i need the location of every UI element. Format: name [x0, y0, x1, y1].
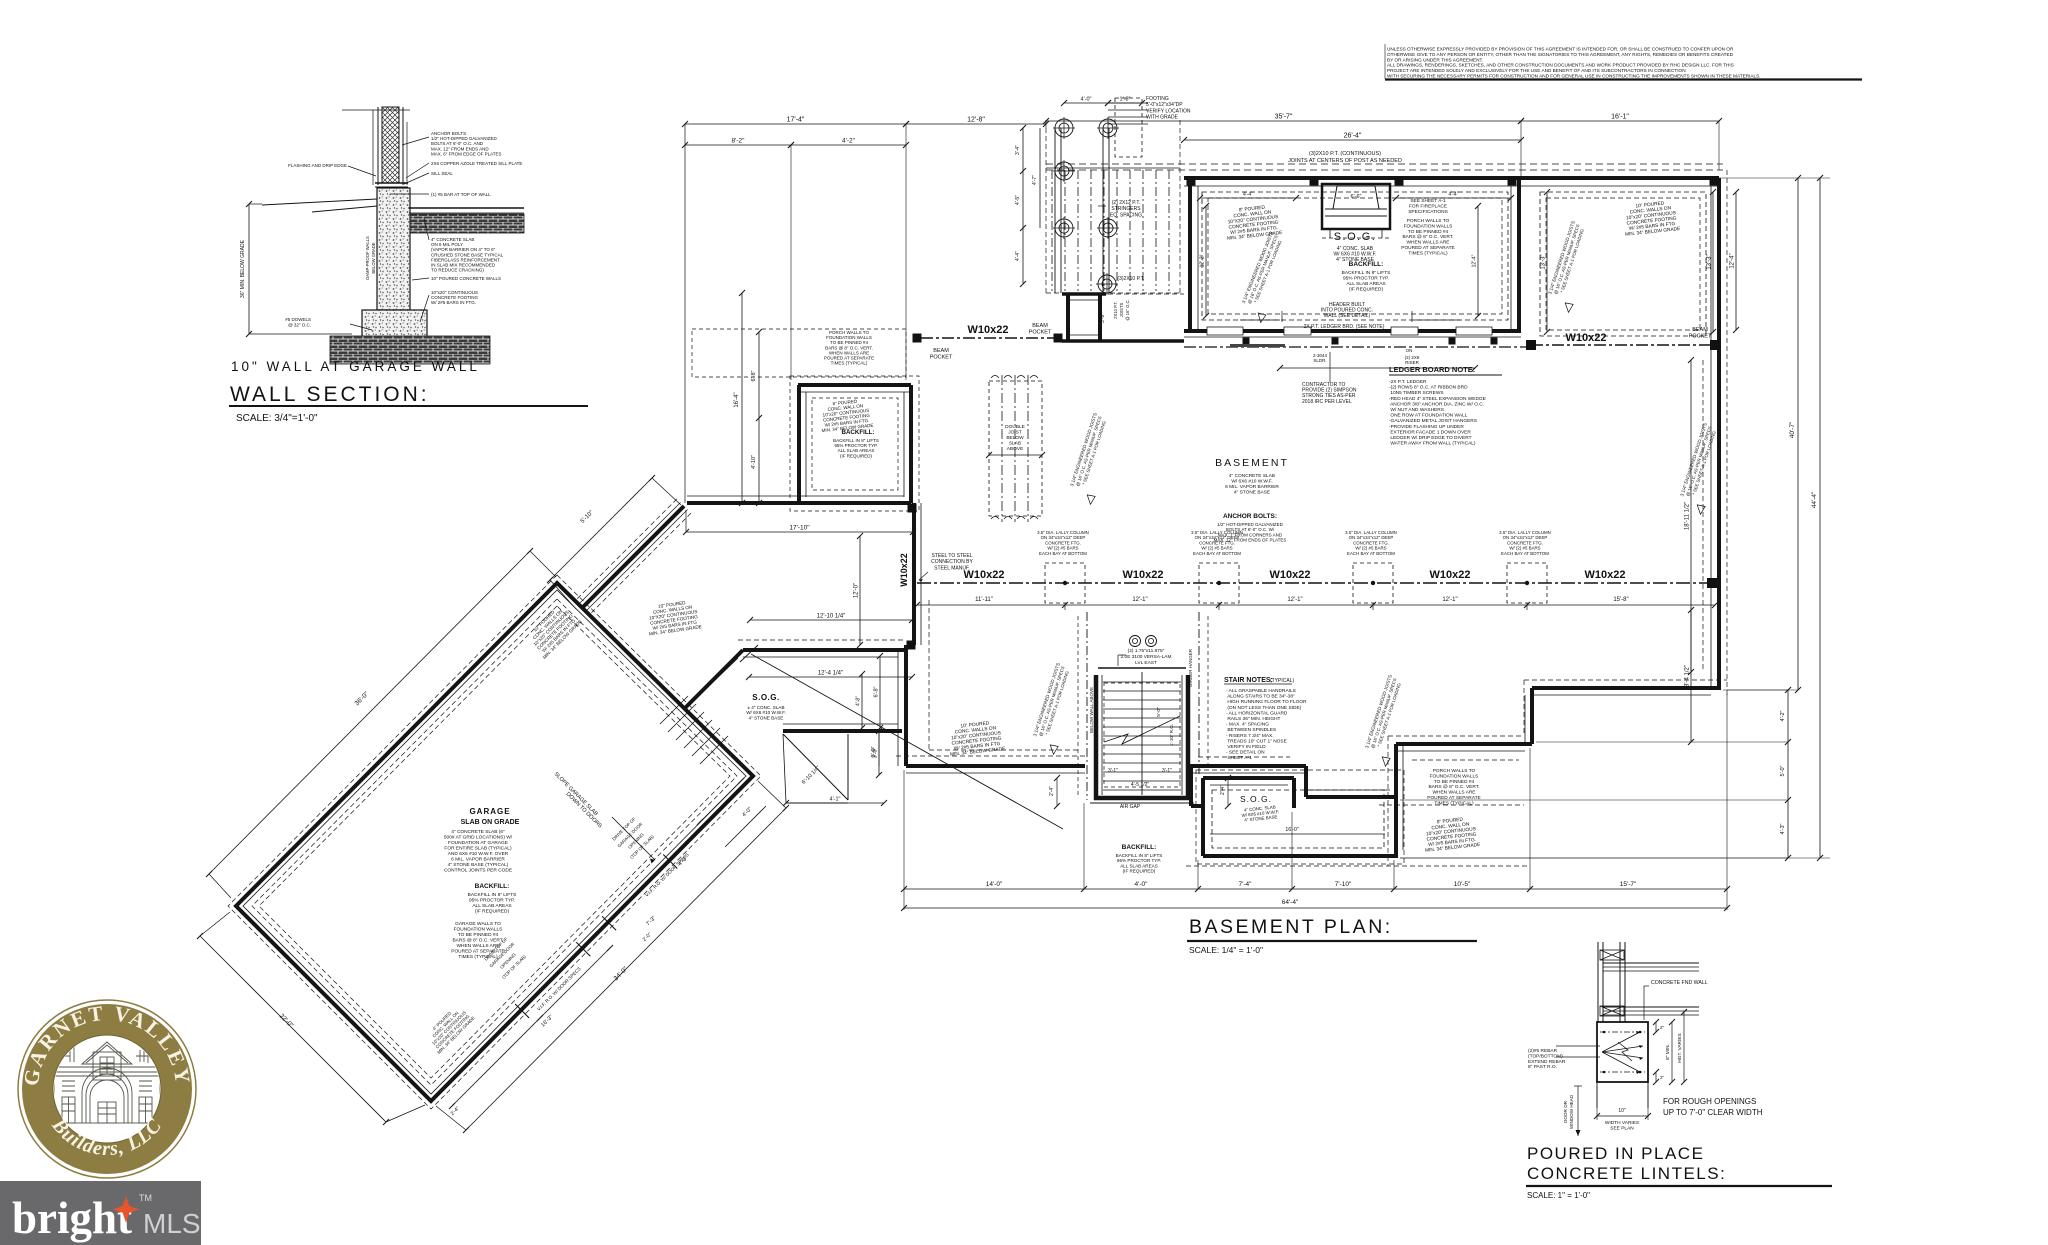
svg-text:BELOW GRADE: BELOW GRADE: [371, 242, 376, 273]
svg-text:15'-7": 15'-7": [1620, 881, 1637, 888]
stairs long diagonal line: [740, 645, 1063, 829]
svg-text:3'-1": 3'-1": [1108, 768, 1118, 774]
svg-text:26'-4": 26'-4": [1344, 133, 1362, 140]
svg-text:4'-2": 4'-2": [842, 138, 856, 145]
svg-text:4'-4": 4'-4": [1243, 192, 1253, 198]
double joist dashed box: [986, 375, 1045, 522]
porch SOG bump walls: [1196, 770, 1404, 864]
svg-text:64'-4": 64'-4": [1282, 899, 1299, 906]
deck dimension 4-0: [1061, 96, 1191, 121]
deck annotations: [1098, 200, 1145, 321]
svg-text:SILL SEAL: SILL SEAL: [431, 171, 453, 176]
sog landing label: [746, 693, 786, 720]
bottom notch left of porch: [1191, 766, 1203, 806]
main beam W10x22 line: [899, 553, 1717, 588]
mudroom steps lines: [660, 696, 728, 764]
porch ledger dashed lines above top wall: [1046, 164, 1723, 170]
svg-text:17'-10": 17'-10": [789, 525, 810, 532]
svg-text:12'-2": 12'-2": [1200, 254, 1206, 267]
svg-text:2": 2": [1660, 1075, 1665, 1080]
svg-text:WALL SECTION:: WALL SECTION:: [230, 383, 430, 406]
left wall upper segment: [907, 503, 922, 650]
svg-text:6'-8": 6'-8": [751, 370, 757, 381]
svg-text:BACKFILL IN 8" LIFTS95% PROCTO: BACKFILL IN 8" LIFTS95% PROCTOR TYP.ALL …: [1116, 853, 1163, 874]
svg-text:3'-0": 3'-0": [871, 746, 877, 757]
top dimension 35-7: [1043, 114, 1524, 179]
svg-text:4" CONCRETE SLAB (6"500# AT GR: 4" CONCRETE SLAB (6"500# AT GRID LOCATIO…: [444, 829, 513, 874]
svg-text:16'-1": 16'-1": [1611, 114, 1629, 121]
svg-text:8'-4 1/2": 8'-4 1/2": [1685, 665, 1691, 687]
svg-text:7'-4": 7'-4": [1239, 881, 1253, 888]
lintel box: [1597, 1022, 1648, 1082]
deck footing posts circles: [1053, 117, 1119, 295]
svg-text:ALL DRAWINGS, RENDERINGS, SKET: ALL DRAWINGS, RENDERINGS, SKETCHES, AND …: [1387, 63, 1734, 68]
right step dimensions: [1400, 687, 1791, 861]
svg-text:GARAGE WALLS TOFOUNDATION WALL: GARAGE WALLS TOFOUNDATION WALLSTO BE PIN…: [451, 921, 505, 960]
svg-text:4'-8": 4'-8": [856, 696, 862, 706]
svg-text:MLS: MLS: [143, 1208, 201, 1239]
svg-text:4'-5 1/2": 4'-5 1/2": [1131, 782, 1150, 788]
svg-text:2X P.T. LEDGER BRD. (SEE NOTE): 2X P.T. LEDGER BRD. (SEE NOTE): [1304, 324, 1385, 330]
svg-text:BACKFILL:: BACKFILL:: [1349, 261, 1384, 268]
svg-text:14'-0": 14'-0": [986, 881, 1003, 888]
engineered wood joists note (rotated): [1676, 421, 1730, 515]
contractor simpson note: [1302, 352, 1357, 405]
garnet valley builders logo: [18, 1000, 196, 1178]
garage door openings: [515, 855, 677, 1019]
lintel width dims: [1594, 1086, 1651, 1131]
svg-text:7'-10": 7'-10": [1335, 881, 1352, 888]
top-right room bottom wall with openings: [1184, 327, 1521, 345]
svg-text:12'-8": 12'-8": [967, 117, 985, 124]
svg-text:HGT. VARIES: HGT. VARIES: [1677, 1033, 1683, 1063]
svg-text:STEEL TO STEELCONNECTION BYSTE: STEEL TO STEELCONNECTION BYSTEEL MANUF.: [931, 553, 973, 571]
top-right room inner dashed footing: [1202, 192, 1508, 320]
svg-text:12'-1": 12'-1": [1442, 597, 1457, 603]
svg-text:BACKFILL:: BACKFILL:: [1122, 844, 1157, 851]
svg-text:PORCH WALLS TOFOUNDATION WALLS: PORCH WALLS TOFOUNDATION WALLSTO BE PINN…: [824, 330, 874, 366]
svg-text:S.O.G.: S.O.G.: [1240, 794, 1272, 804]
sog bottom wall: [783, 724, 902, 731]
wall section annotation leaders: [348, 137, 429, 330]
svg-text:@ 16" O.C.: @ 16" O.C.: [1125, 299, 1130, 320]
svg-text:8'-2": 8'-2": [732, 138, 746, 145]
svg-text:15'-8": 15'-8": [1613, 597, 1628, 603]
svg-text:OTHERWISE GIVE TO ANY PERSON O: OTHERWISE GIVE TO ANY PERSON OR ENTITY, …: [1387, 52, 1734, 57]
svg-text:13'-3": 13'-3": [1707, 254, 1713, 269]
lintel detail wall studs: [1598, 942, 1625, 1022]
bright MLS logo box: [0, 1181, 201, 1245]
lower-right step walls: [1186, 680, 1727, 866]
svg-text:BACKFILL:: BACKFILL:: [842, 429, 875, 436]
svg-text:ON: ON: [1406, 348, 1413, 353]
top dimension 16-1: [1518, 114, 1722, 171]
lintel door window head arrow: [1563, 1086, 1582, 1136]
svg-text:S.O.G.: S.O.G.: [752, 693, 779, 702]
svg-text:2'-4": 2'-4": [1049, 786, 1055, 796]
right porch inner dashed footing: [1540, 192, 1706, 336]
lintel rebar note: [1528, 1046, 1600, 1070]
svg-text:2": 2": [1660, 1025, 1665, 1030]
bottom left poured wall note: [947, 719, 1006, 758]
left wall lower segment: [898, 645, 906, 766]
lally columns on beam: [1045, 563, 1547, 610]
svg-text:STAIR NOTES:: STAIR NOTES:: [1224, 677, 1273, 684]
disclaimer text block: [1385, 44, 1862, 80]
svg-text:PROJECT ARE INTENDED SOLELY AN: PROJECT ARE INTENDED SOLELY AND EXCLUSIV…: [1387, 68, 1686, 73]
sog steps triangle: [783, 734, 848, 803]
svg-text:UP TO 7'-0" CLEAR WIDTH: UP TO 7'-0" CLEAR WIDTH: [1663, 1108, 1763, 1117]
svg-text:BACKFILL IN 8" LIFTS95% PROCTO: BACKFILL IN 8" LIFTS95% PROCTOR TYP.ALL …: [468, 892, 517, 915]
mudroom dimension 5-10: [547, 475, 681, 609]
svg-text:5'-0": 5'-0": [1780, 765, 1786, 776]
svg-text:10"x20" CONTINUOUSCONCRETE FOO: 10"x20" CONTINUOUSCONCRETE FOOTINGW/ 2#5…: [431, 290, 478, 305]
svg-text:DAMP-PROOF WALLS: DAMP-PROOF WALLS: [365, 236, 370, 280]
svg-text:10" POURED CONCRETE WALLS: 10" POURED CONCRETE WALLS: [431, 276, 501, 281]
svg-text:12'-4": 12'-4": [1472, 254, 1478, 267]
svg-text:GIRDER HANGER: GIRDER HANGER: [1188, 648, 1193, 687]
svg-text:W10x22: W10x22: [1430, 569, 1471, 581]
garage dimension 34-0 and sub dims: [436, 781, 789, 1133]
svg-text:(2) 2X12 P.T.STRINGERSEQ. SPAC: (2) 2X12 P.T.STRINGERSEQ. SPACING: [1110, 200, 1142, 218]
svg-text:BACKFILL IN 8" LIFTS95% PROCTO: BACKFILL IN 8" LIFTS95% PROCTOR TYP.ALL …: [1342, 270, 1391, 293]
svg-text:4'-4": 4'-4": [1015, 251, 1021, 261]
garage dimension 22-0: [197, 912, 425, 1125]
svg-text:SEE SHEET A-1FOR FIREPLACESPEC: SEE SHEET A-1FOR FIREPLACESPECIFICATIONS: [1408, 198, 1448, 215]
svg-text:JOISTS: JOISTS: [1119, 302, 1124, 317]
svg-text:CONCRETE LINTELS:: CONCRETE LINTELS:: [1527, 1164, 1726, 1183]
svg-text:12'-1": 12'-1": [1132, 597, 1147, 603]
svg-text:12'-4 1/4": 12'-4 1/4": [818, 671, 843, 677]
svg-text:DOUBLEJOISTBELOWSLABABOVE: DOUBLEJOISTBELOWSLABABOVE: [1005, 424, 1025, 452]
svg-text:4'-3": 4'-3": [1780, 823, 1786, 834]
sog top wall: [738, 640, 906, 657]
svg-text:SCALE: 3/4"=1'-0": SCALE: 3/4"=1'-0": [236, 413, 318, 424]
steel to steel note: [919, 553, 973, 582]
svg-text:5'-0": 5'-0": [1156, 707, 1162, 717]
svg-text:W10x22: W10x22: [968, 324, 1009, 336]
left vertical dims backfill room: [734, 290, 762, 506]
sog left diagonal wall: [684, 650, 743, 709]
svg-text:4'-10": 4'-10": [751, 455, 757, 469]
svg-text:4'-5": 4'-5": [1015, 195, 1021, 205]
svg-text:12'-1": 12'-1": [1287, 597, 1302, 603]
svg-text:12'-0": 12'-0": [854, 583, 860, 598]
engineered wood joists note (rotated): [1361, 673, 1415, 767]
backfill note bottom center: [1116, 844, 1163, 874]
wall section left dimension 36in min below grade: [240, 201, 352, 337]
svg-text:PORCH WALLS TOFOUNDATION WALLS: PORCH WALLS TOFOUNDATION WALLSTO BE PINN…: [1427, 768, 1481, 806]
beam W10x22 top right: [1526, 327, 1720, 350]
svg-text:12'-10 1/4": 12'-10 1/4": [817, 614, 846, 620]
svg-text:AIR GAP: AIR GAP: [1120, 804, 1141, 810]
svg-text:2X6 COPPER AZOLE TREATED SILL: 2X6 COPPER AZOLE TREATED SILL PLATE: [431, 161, 522, 166]
svg-text:BY OR ARISING UNDER THIS AGREE: BY OR ARISING UNDER THIS AGREEMENT.: [1387, 57, 1483, 62]
lintel detail floor lines: [1603, 963, 1699, 1015]
wall section annotation text: [285, 131, 522, 328]
top-right room right wall: [1511, 178, 1519, 332]
bottom wall right of stair: [1188, 766, 1396, 797]
engineered wood joists note (rotated): [1237, 229, 1297, 323]
svg-text:3'-9": 3'-9": [1100, 313, 1106, 323]
right side dimensions: [1400, 175, 1830, 861]
svg-text:(3)2X10 P.T. (CONTINUOUS): (3)2X10 P.T. (CONTINUOUS): [1309, 151, 1381, 157]
svg-text:4'-0": 4'-0": [1135, 881, 1149, 888]
top-right room left wall: [1190, 178, 1198, 332]
wall section detail: framed wall with insulation: [342, 107, 410, 187]
svg-text:WITH SECURING THE NECESSARY PE: WITH SECURING THE NECESSARY PERMITS FOR …: [1387, 74, 1761, 79]
stair notes block: [1224, 677, 1307, 761]
bottom overall dimension 64-4: [901, 899, 1730, 911]
junction dimensions: [677, 508, 916, 867]
svg-text:JOINTS AT CENTERS OF POST AS N: JOINTS AT CENTERS OF POST AS NEEDED: [1288, 158, 1402, 164]
svg-text:PORCH WALLS TOFOUNDATION WALLS: PORCH WALLS TOFOUNDATION WALLSTO BE PINN…: [1401, 218, 1455, 256]
engineered wood joists note (rotated): [1544, 219, 1598, 313]
porch SOG label bottom: [1240, 794, 1299, 833]
small vertical dims near porch: [871, 731, 1231, 809]
svg-text:6'-8": 6'-8": [874, 686, 880, 697]
svg-text:bright: bright: [12, 1193, 132, 1243]
svg-text:BACKFILL:: BACKFILL:: [475, 883, 510, 890]
top dimension 17-4 and 12-8: [682, 117, 1049, 504]
garage slab text: [444, 807, 520, 960]
garage inner wall lines: [228, 575, 761, 1109]
svg-text:W10x22: W10x22: [1270, 569, 1311, 581]
stair flanking dash-dot lines: [1078, 612, 1208, 800]
top right room wall note: [1224, 203, 1283, 242]
slider labels under wall: [1277, 348, 1478, 371]
bottom wall left of stair: [896, 756, 1085, 773]
svg-text:3'-4": 3'-4": [1015, 145, 1021, 155]
svg-text:40'-7": 40'-7": [1789, 421, 1796, 438]
svg-text:1'-10" R.O.: 1'-10" R.O.: [1169, 724, 1174, 746]
basement room label: [1214, 457, 1289, 543]
deck stair dashed footing: [1108, 98, 1148, 157]
wall section detail: slab and stone base: [262, 199, 524, 233]
backfill room interior text: [819, 397, 879, 458]
svg-text:4'-4": 4'-4": [1449, 192, 1459, 198]
ledger dash-dot line: [1184, 344, 1528, 347]
stair landing LVL header: [1089, 636, 1193, 811]
svg-text:11'-11": 11'-11": [975, 597, 993, 603]
backfill room walls: [687, 376, 919, 511]
svg-text:(TYPICAL): (TYPICAL): [1270, 678, 1295, 684]
ledger board note block: [1389, 365, 1502, 447]
svg-text:1'-8": 1'-8": [1120, 97, 1131, 103]
svg-text:10": 10": [1618, 1108, 1626, 1114]
wall section detail: soil-brick band under footing: [330, 336, 490, 364]
svg-text:4'-2": 4'-2": [1780, 710, 1786, 721]
svg-text:ANCHOR BOLTS:: ANCHOR BOLTS:: [1223, 513, 1277, 520]
top dimension 26-4: [1181, 133, 1524, 144]
svg-text:16'-4": 16'-4": [734, 392, 740, 407]
svg-text:4'-1": 4'-1": [830, 797, 841, 803]
svg-text:10'-5": 10'-5": [1454, 881, 1471, 888]
svg-text:13'-3": 13'-3": [1541, 254, 1547, 269]
engineered wood joists note (rotated): [1029, 661, 1083, 755]
porch pinned note bottom right: [1427, 768, 1481, 806]
svg-text:1/2" HOT-DIPPED GALVANIZEDBOLT: 1/2" HOT-DIPPED GALVANIZEDBOLTS AT 6'-0"…: [1214, 522, 1287, 543]
svg-text:(1) #5 BAR AT TOP OF WALL: (1) #5 BAR AT TOP OF WALL: [431, 192, 491, 197]
garage rotated wall notes: [422, 600, 690, 1054]
porch walls pinned note top: [1401, 218, 1455, 256]
svg-text:W10x22: W10x22: [1123, 569, 1164, 581]
bottom right poured wall note: [1422, 815, 1481, 854]
garage outer walls: [236, 583, 753, 1101]
svg-text:6'-6": 6'-6": [1351, 194, 1362, 200]
lintel right dimensions: [1653, 1009, 1687, 1085]
svg-text:FOR ROUGH OPENINGS: FOR ROUGH OPENINGS: [1663, 1097, 1756, 1106]
main top wall: [1184, 177, 1719, 187]
svg-text:W10x22: W10x22: [1566, 332, 1607, 344]
right porch room wall note: [1622, 199, 1681, 238]
svg-text:TM: TM: [139, 1193, 152, 1203]
continuous joist note top: [1288, 151, 1402, 164]
top right room SOG label: [1333, 231, 1390, 293]
svg-text:18'-11 1/2": 18'-11 1/2": [1685, 502, 1691, 530]
svg-text:4'-7": 4'-7": [1032, 175, 1038, 185]
fireplace see sheet note: [1408, 198, 1448, 215]
mudroom rotated note: [645, 598, 702, 636]
svg-text:#5 DOWELS@ 32" O.C.: #5 DOWELS@ 32" O.C.: [285, 317, 311, 328]
svg-text:CONCRETE FND WALL: CONCRETE FND WALL: [1651, 980, 1708, 986]
top-right room small dims: [1197, 192, 1514, 320]
svg-text:W10x22: W10x22: [1585, 569, 1626, 581]
svg-text:SLAB ON GRADE: SLAB ON GRADE: [461, 819, 520, 826]
lally column notes: [1037, 530, 1551, 556]
lintel concrete fnd wall label: [1644, 980, 1708, 1020]
deck porch room small: [1062, 294, 1184, 341]
svg-text:2X10 P.T.: 2X10 P.T.: [1113, 301, 1118, 319]
svg-text:35'-7": 35'-7": [1275, 114, 1293, 121]
bottom dimension chain: [901, 694, 1730, 910]
header built note: [1240, 302, 1460, 330]
deck left dimensions: [1015, 125, 1040, 287]
svg-text:17'-4": 17'-4": [787, 117, 805, 124]
svg-text:36" MIN. BELOW GRADE: 36" MIN. BELOW GRADE: [240, 239, 246, 298]
svg-text:LEDGER BOARD NOTE:: LEDGER BOARD NOTE:: [1389, 365, 1475, 374]
engineered wood joists note (rotated): [1066, 411, 1120, 505]
right wall: [1711, 170, 1727, 696]
svg-text:4'-0": 4'-0": [1081, 97, 1092, 103]
svg-text:SLDR.: SLDR.: [1313, 358, 1326, 363]
svg-text:DOOR OR: DOOR OR: [1563, 1100, 1568, 1123]
deck joists and posts: [1046, 120, 1180, 293]
stair treads: [1103, 672, 1181, 795]
lintel title: [1526, 1144, 1832, 1200]
porch walls pinned note above backfill room: [692, 329, 906, 377]
beam bay dimensions: [914, 597, 1718, 608]
svg-text:44'-4": 44'-4": [1811, 491, 1818, 508]
wall section title: [229, 359, 588, 424]
svg-text:UNLESS OTHERWISE EXPRESSLY PRO: UNLESS OTHERWISE EXPRESSLY PROVIDED BY P…: [1387, 47, 1734, 52]
lintel rough openings note: [1663, 1097, 1763, 1117]
wall section detail: concrete footing: [362, 310, 427, 346]
svg-text:GARAGE: GARAGE: [469, 807, 510, 816]
svg-text:12'-4": 12'-4": [1730, 253, 1736, 268]
slope garage slab note: [553, 771, 655, 863]
svg-text:SCALE: 1/4" = 1'-0": SCALE: 1/4" = 1'-0": [1189, 945, 1263, 955]
basement plan title: [1187, 916, 1477, 955]
wall section detail: concrete stem wall: [377, 188, 410, 310]
svg-text:8" MIN.: 8" MIN.: [1665, 1044, 1671, 1060]
svg-text:SCALE: 1" = 1'-0": SCALE: 1" = 1'-0": [1527, 1191, 1590, 1200]
svg-text:2'-4": 2'-4": [1220, 785, 1226, 795]
svg-text:W10x22: W10x22: [899, 553, 909, 587]
svg-text:BACKFILL IN 8" LIFTS95% PROCTO: BACKFILL IN 8" LIFTS95% PROCTOR TYP.ALL …: [833, 438, 879, 458]
stairwell enclosure: [1090, 675, 1194, 803]
svg-text:BASEMENT PLAN:: BASEMENT PLAN:: [1189, 916, 1393, 938]
svg-text:10" WALL AT GARAGE WALL: 10" WALL AT GARAGE WALL: [231, 359, 480, 374]
svg-text:FLASHING AND DRIP EDGE: FLASHING AND DRIP EDGE: [288, 163, 347, 168]
svg-text:BELOW WALL ABOVE: BELOW WALL ABOVE: [1089, 687, 1094, 733]
svg-text:3'-1": 3'-1": [1162, 768, 1172, 774]
svg-text:± 4" CONC. SLABW/ 6X6 #10 W.W.: ± 4" CONC. SLABW/ 6X6 #10 W.W.F.4" STONE…: [746, 705, 786, 720]
mudroom diagonal wall upper: [575, 499, 691, 615]
svg-text:(3)2X10 P.T.: (3)2X10 P.T.: [1117, 276, 1144, 282]
beam W10x22 upper left: [913, 323, 1063, 361]
svg-text:WINDOW HEAD: WINDOW HEAD: [1569, 1094, 1574, 1129]
lintel below-box wall lines: [1597, 1082, 1648, 1108]
garage dimension 36-0: [206, 548, 556, 898]
basement interior dashed footing lines: [929, 360, 1703, 805]
svg-text:POURED IN PLACE: POURED IN PLACE: [1527, 1144, 1704, 1163]
fireplace: [1322, 184, 1390, 238]
svg-text:BASEMENT: BASEMENT: [1215, 457, 1289, 469]
svg-text:RISER: RISER: [1405, 360, 1420, 365]
svg-text:S.O.G.: S.O.G.: [1334, 231, 1377, 243]
